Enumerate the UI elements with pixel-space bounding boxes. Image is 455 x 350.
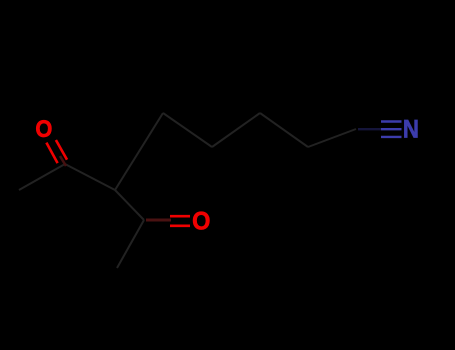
triple bond C3#N line 3 <box>381 136 402 138</box>
triple bond C3#N line 1 <box>381 120 402 122</box>
triple bond C3#N dark half <box>358 128 381 130</box>
wire: bond CH3a-C1 <box>19 164 65 190</box>
triple bond C3#N line 2 <box>381 128 402 130</box>
wire: bond CH2a-CH2b <box>163 113 212 147</box>
double bond C1=O1 dark half <box>60 156 66 166</box>
double bond C2=O2 line 1 <box>170 215 190 218</box>
wire: bond CH2b-CH2c <box>212 113 260 147</box>
wire: bond CH2c-CH2d <box>260 113 308 147</box>
wire: bond CH-CH2a <box>115 113 163 190</box>
svg-text:O: O <box>35 115 52 142</box>
double bond C2=O2 dark half <box>146 219 171 222</box>
wire: bond C2-CH3b <box>117 220 144 268</box>
svg-text:N: N <box>403 117 419 144</box>
double bond C1=O1 line 2 <box>56 140 67 160</box>
double bond C2=O2 line 2 <box>170 225 190 228</box>
wire: bond C1-CH <box>65 164 115 190</box>
double bond C1=O1 line 1 <box>46 143 57 164</box>
wire: bond CH-C2 <box>115 190 144 220</box>
svg-text:O: O <box>192 208 210 236</box>
wire: bond CH2d-C3 <box>308 129 356 147</box>
